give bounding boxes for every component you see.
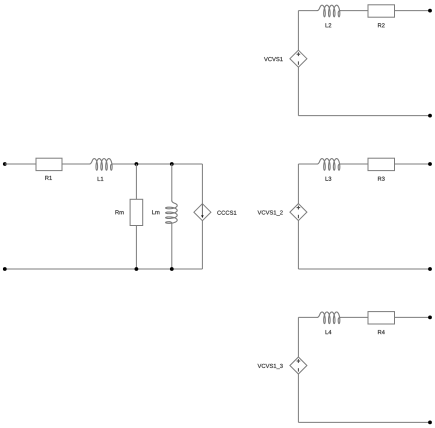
junction node Rm top <box>135 162 139 166</box>
bottom wire VCVS1_3 <box>298 421 430 423</box>
junction node Lm bottom <box>170 267 174 271</box>
wire L4 to R4 <box>340 316 368 318</box>
junction node Rm bottom <box>135 267 139 271</box>
wire Rm branch upper <box>135 164 137 199</box>
node right top VCVS1 <box>428 9 432 13</box>
voltage-controlled voltage source VCVS1_2 <box>258 204 307 221</box>
node right top VCVS1_3 <box>428 316 432 320</box>
resistor R4 <box>368 312 395 335</box>
wire VCVS1_2 top lead <box>297 164 299 204</box>
wire VCVS1_3 bottom lead <box>297 374 299 422</box>
wire VCVS1_2 bottom lead <box>297 221 299 269</box>
wire VCVS1 bottom lead <box>297 67 299 115</box>
inductor L4 <box>317 312 340 334</box>
wire CCCS1 branch upper <box>201 164 203 204</box>
wire Rm branch lower <box>135 226 137 270</box>
node p1 (left top terminal) <box>3 162 7 166</box>
node right bottom VCVS1_2 <box>428 267 432 271</box>
wire R1 to L1 <box>62 163 90 165</box>
bottom wire left circuit <box>5 268 203 270</box>
node right bottom VCVS1_3 <box>428 421 432 425</box>
wire L1 to CCCS1 branch <box>113 163 203 165</box>
inductor L3 <box>317 159 340 181</box>
bottom wire VCVS1_2 <box>298 268 430 270</box>
current-controlled current source CCCS1 <box>194 204 236 221</box>
wire VCVS1_2 to L3 <box>298 163 317 165</box>
wire L3 to R3 <box>340 163 368 165</box>
resistor R3 <box>368 158 395 181</box>
voltage-controlled voltage source VCVS1 <box>264 50 307 67</box>
resistor Rm <box>115 199 142 225</box>
wire VCVS1 to L2 <box>298 10 317 12</box>
wire p1 to R1 <box>5 163 36 165</box>
junction node Lm top <box>170 162 174 166</box>
wire CCCS1 branch lower <box>201 221 203 269</box>
wire R2 to right node <box>395 10 431 12</box>
node right top VCVS1_2 <box>428 162 432 166</box>
wire VCVS1 top lead <box>297 11 299 51</box>
inductor Lm <box>152 201 177 224</box>
node right bottom VCVS1 <box>428 114 432 118</box>
inductor L1 <box>90 159 113 181</box>
wire VCVS1_3 top lead <box>297 317 299 357</box>
wire Lm branch upper <box>171 164 173 201</box>
resistor R2 <box>368 5 395 28</box>
node p2 (left bottom terminal) <box>3 267 7 271</box>
bottom wire VCVS1 <box>298 115 430 117</box>
wire R3 to right node <box>395 163 431 165</box>
wire VCVS1_3 to L4 <box>298 316 317 318</box>
wire Lm branch lower <box>171 224 173 269</box>
inductor L2 <box>317 5 340 27</box>
wire L2 to R2 <box>340 10 368 12</box>
voltage-controlled voltage source VCVS1_3 <box>258 357 307 374</box>
resistor R1 <box>36 158 62 180</box>
wire R4 to right node <box>395 316 431 318</box>
